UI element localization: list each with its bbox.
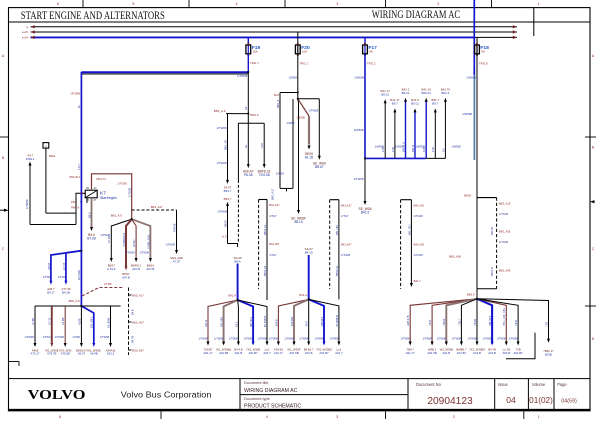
svg-text:1/TG08: 1/TG08 bbox=[414, 214, 424, 218]
fan branch 4 gray bbox=[132, 219, 151, 258]
svg-text:P5A: P5A bbox=[71, 200, 76, 204]
svg-text:A01.B: A01.B bbox=[502, 351, 510, 355]
svg-text:A0.1: A0.1 bbox=[234, 321, 238, 327]
svg-text:B05.01: B05.01 bbox=[422, 91, 432, 95]
svg-text:A01.B7: A01.B7 bbox=[319, 351, 329, 355]
svg-text:TRG.Y: TRG.Y bbox=[250, 61, 259, 65]
svg-text:A09.5B1: A09.5B1 bbox=[290, 316, 294, 327]
wire bus to F20 bbox=[297, 32, 299, 45]
svg-text:1/TW08: 1/TW08 bbox=[229, 337, 239, 341]
svg-text:4: 4 bbox=[235, 2, 237, 6]
svg-text:B4.7B: B4.7B bbox=[131, 336, 135, 343]
svg-text:3: 3 bbox=[336, 415, 338, 419]
tree4 right extension wire bbox=[477, 299, 549, 340]
title block outline bbox=[9, 379, 591, 410]
frame zone ticks left bbox=[0, 136, 9, 138]
svg-text:1/TW08: 1/TW08 bbox=[483, 337, 493, 341]
svg-text:B+5: B+5 bbox=[274, 93, 280, 97]
svg-text:1/W08: 1/W08 bbox=[286, 121, 295, 125]
svg-text:A07.B: A07.B bbox=[122, 275, 130, 279]
svg-text:1/TW0: 1/TW0 bbox=[43, 335, 51, 339]
wire F18 down to tree4 hub bbox=[476, 54, 478, 299]
title block divider doc cell bbox=[239, 379, 241, 410]
svg-text:A1.35: A1.35 bbox=[305, 155, 314, 159]
svg-text:B41.7B1: B41.7B1 bbox=[335, 224, 339, 235]
svg-text:B6S9: B6S9 bbox=[223, 220, 227, 227]
svg-text:B54.7: B54.7 bbox=[224, 189, 232, 193]
svg-text:04: 04 bbox=[506, 395, 516, 405]
svg-text:1/TW08: 1/TW08 bbox=[468, 337, 478, 341]
svg-text:B6S.9: B6S.9 bbox=[250, 113, 258, 117]
svg-text:B15_B8.1: B15_B8.1 bbox=[90, 316, 94, 328]
svg-text:A01.5B: A01.5B bbox=[427, 351, 436, 355]
svg-text:A09.B: A09.B bbox=[274, 319, 278, 326]
svg-text:A01.B7: A01.B7 bbox=[513, 351, 523, 355]
svg-text:A7.B5: A7.B5 bbox=[31, 317, 35, 325]
power bus +15 line 2 bbox=[31, 31, 518, 33]
rail connector tree4 bbox=[477, 197, 497, 199]
tree1 branch 3 maroon bbox=[64, 306, 66, 344]
svg-text:1/W508: 1/W508 bbox=[375, 145, 385, 149]
svg-text:1/TW08: 1/TW08 bbox=[437, 337, 447, 341]
power bus +30 line 1 bbox=[31, 26, 518, 28]
svg-text:A61.5: A61.5 bbox=[294, 220, 303, 224]
svg-text:1XX: 1XX bbox=[260, 143, 264, 148]
svg-text:A01.B: A01.B bbox=[305, 351, 313, 355]
svg-text:A01.5B: A01.5B bbox=[219, 351, 228, 355]
svg-text:1/TW0: 1/TW0 bbox=[43, 275, 51, 279]
svg-text:1/TW7: 1/TW7 bbox=[132, 239, 136, 247]
header bar under F19 bbox=[238, 122, 264, 124]
svg-text:5: 5 bbox=[132, 2, 134, 6]
svg-text:1/TW08: 1/TW08 bbox=[101, 233, 111, 237]
svg-text:1/TW08: 1/TW08 bbox=[139, 251, 149, 255]
junction dots bbox=[247, 71, 249, 73]
svg-text:04(59): 04(59) bbox=[561, 399, 577, 405]
svg-text:B6S_A17: B6S_A17 bbox=[132, 293, 144, 297]
wire G1 down bbox=[45, 148, 47, 213]
svg-text:7B.B: 7B.B bbox=[514, 320, 518, 326]
tree4 splice fan bbox=[410, 299, 477, 344]
svg-text:B41.7B.1: B41.7B.1 bbox=[407, 224, 411, 235]
wire F19 to node J1 bbox=[247, 54, 249, 72]
svg-text:A01.B7: A01.B7 bbox=[248, 351, 258, 355]
svg-text:1/TG08: 1/TG08 bbox=[117, 181, 127, 185]
riser 2 with up-arrow bbox=[394, 112, 396, 159]
maroon dashed link tree1 bbox=[82, 288, 124, 297]
svg-text:B6S_A05: B6S_A05 bbox=[499, 230, 511, 234]
node F20 tee left bbox=[280, 92, 298, 94]
svg-text:7B.1_CM_7.B1: 7B.1_CM_7.B1 bbox=[502, 308, 506, 326]
svg-text:A75.17: A75.17 bbox=[31, 352, 40, 356]
svg-text:WIRING DIAGRAM AC: WIRING DIAGRAM AC bbox=[372, 9, 460, 21]
svg-text:Document No: Document No bbox=[416, 382, 442, 387]
svg-text:1/W508: 1/W508 bbox=[354, 75, 364, 79]
svg-text:1/W08: 1/W08 bbox=[276, 172, 285, 176]
svg-text:6: 6 bbox=[57, 2, 59, 6]
rail connector tree2 bbox=[259, 199, 267, 201]
svg-text:1/TW08: 1/TW08 bbox=[509, 337, 519, 341]
svg-text:1/W508: 1/W508 bbox=[416, 145, 426, 149]
maroon wire K7 coil feed bbox=[92, 174, 132, 219]
tree2 splice fan bbox=[208, 300, 238, 344]
svg-text:1/TW08: 1/TW08 bbox=[199, 337, 209, 341]
svg-text:1/TW08: 1/TW08 bbox=[217, 126, 227, 130]
svg-text:B6S_A.9: B6S_A.9 bbox=[111, 214, 123, 218]
svg-text:B6S9: B6S9 bbox=[464, 193, 471, 197]
tree1 branch 4 bbox=[80, 306, 82, 344]
svg-text:B6S_A9: B6S_A9 bbox=[223, 140, 227, 150]
svg-text:B7.B1B.B: B7.B1B.B bbox=[263, 315, 267, 327]
svg-text:A01.17: A01.17 bbox=[406, 351, 415, 355]
svg-text:B6S_A.9: B6S_A.9 bbox=[214, 109, 226, 113]
wire column A17 with arrow bbox=[176, 210, 178, 251]
header strip divider line bbox=[9, 21, 591, 23]
svg-text:B6S1.B: B6S1.B bbox=[490, 267, 494, 276]
blue riser wire through cluster bbox=[80, 72, 82, 247]
manifold bar blue bbox=[365, 157, 426, 159]
svg-text:B6S_A17: B6S_A17 bbox=[271, 188, 275, 200]
svg-text:B9.01: B9.01 bbox=[381, 92, 389, 96]
manifold bar black bbox=[426, 157, 446, 159]
svg-text:B7.08: B7.08 bbox=[87, 237, 96, 241]
svg-text:B6S_A17: B6S_A17 bbox=[151, 205, 163, 209]
svg-text:2: 2 bbox=[453, 415, 455, 419]
svg-text:1/TG7: 1/TG7 bbox=[269, 253, 277, 257]
svg-text:PRODUCT SCHEMATIC: PRODUCT SCHEMATIC bbox=[244, 403, 301, 409]
off-page arrow up S4 bbox=[29, 162, 32, 166]
blue feeder wire from top edge bbox=[473, 0, 475, 75]
fan branch 3 bbox=[132, 219, 136, 258]
svg-text:A.5: A.5 bbox=[222, 235, 227, 239]
svg-text:1/TW08: 1/TW08 bbox=[217, 210, 227, 214]
svg-text:3A: 3A bbox=[244, 144, 248, 148]
svg-text:A5.07: A5.07 bbox=[78, 352, 86, 356]
svg-text:Volvo Bus Corporation: Volvo Bus Corporation bbox=[121, 390, 212, 399]
svg-text:B6S_A97: B6S_A97 bbox=[132, 348, 144, 352]
frame bottom thick edge bbox=[8, 409, 591, 411]
wire to SE arrow bbox=[297, 99, 300, 211]
svg-text:F.0: F.0 bbox=[441, 148, 445, 152]
svg-text:7AMB40101: 7AMB40101 bbox=[122, 232, 126, 247]
wire right leg with arrow bbox=[318, 99, 320, 157]
svg-text:10A: 10A bbox=[302, 50, 307, 54]
rail connector right bbox=[401, 199, 412, 201]
riser 7 with up-arrow bbox=[444, 101, 446, 158]
wire F17 down blue bbox=[364, 54, 366, 158]
svg-text:B7.B9B.B: B7.B9B.B bbox=[335, 315, 339, 327]
wire column B54 down-arrow bbox=[227, 114, 229, 181]
wire jog to tree2 feed bbox=[228, 244, 238, 248]
svg-text:PRA.73: PRA.73 bbox=[97, 177, 107, 181]
svg-text:A7.57: A7.57 bbox=[173, 259, 181, 263]
svg-text:A01.B7: A01.B7 bbox=[457, 351, 467, 355]
svg-text:A75.7B: A75.7B bbox=[47, 352, 56, 356]
svg-text:B41.B1: B41.B1 bbox=[490, 226, 494, 235]
fan branch 1 bbox=[111, 219, 131, 258]
node F20 tee right bbox=[298, 98, 320, 100]
svg-text:1/TW08: 1/TW08 bbox=[401, 337, 411, 341]
fuse F20 bbox=[297, 45, 299, 55]
svg-text:10A: 10A bbox=[253, 50, 258, 54]
svg-text:TRG.2: TRG.2 bbox=[367, 62, 376, 66]
svg-text:A07.B: A07.B bbox=[146, 267, 154, 271]
tree1 branch 2 maroon bbox=[51, 306, 53, 344]
wire header leg right with arrow bbox=[263, 123, 265, 165]
tree1 branch 5 blue bbox=[81, 306, 93, 344]
svg-text:P5.: P5. bbox=[80, 192, 84, 196]
svg-text:P8A..9: P8A..9 bbox=[71, 206, 80, 210]
riser 6 with up-arrow bbox=[434, 112, 436, 159]
svg-text:B6S1.A5: B6S1.A5 bbox=[263, 265, 267, 276]
svg-text:1/TW08: 1/TW08 bbox=[452, 337, 462, 341]
svg-text:B5.01: B5.01 bbox=[402, 91, 410, 95]
svg-text:B5.01: B5.01 bbox=[411, 102, 419, 106]
wire header leg middle with arrow bbox=[247, 123, 249, 165]
svg-text:1/W508: 1/W508 bbox=[452, 145, 462, 149]
svg-text:TRG.8: TRG.8 bbox=[479, 62, 488, 66]
svg-text:1/TW08: 1/TW08 bbox=[258, 337, 268, 341]
svg-text:B4.1B: B4.1B bbox=[62, 291, 70, 295]
svg-text:B41.A17: B41.A17 bbox=[341, 204, 352, 208]
svg-text:A15B: A15B bbox=[77, 318, 81, 325]
wire column B54 up-arrow segment bbox=[226, 202, 229, 206]
fan branch 2 maroon trunk bbox=[126, 219, 132, 267]
blue wire J1 to K7 riser bbox=[81, 71, 248, 73]
stub K7 pin85 bbox=[86, 198, 88, 203]
frame zone ticks top bbox=[82, 0, 84, 8]
svg-text:B54.7: B54.7 bbox=[224, 197, 232, 201]
svg-text:5A: 5A bbox=[481, 50, 485, 54]
svg-text:1/TW08: 1/TW08 bbox=[100, 335, 110, 339]
svg-text:6: 6 bbox=[59, 415, 61, 419]
off-page arrow left border bbox=[4, 209, 9, 212]
svg-text:B41.A07: B41.A07 bbox=[269, 242, 280, 246]
svg-text:A01.17: A01.17 bbox=[274, 351, 283, 355]
svg-text:Document type: Document type bbox=[244, 397, 270, 401]
tree1 hub bar bbox=[35, 305, 121, 307]
svg-text:CP15W: CP15W bbox=[70, 92, 80, 96]
svg-text:Issue: Issue bbox=[498, 382, 508, 387]
svg-text:B41.A17: B41.A17 bbox=[269, 203, 280, 207]
svg-text:B01B: B01B bbox=[545, 352, 552, 356]
svg-text:A77.B: A77.B bbox=[48, 318, 52, 325]
svg-text:A01.B: A01.B bbox=[235, 351, 243, 355]
svg-text:A0.9: A0.9 bbox=[305, 321, 309, 327]
connection point symbol G1 bbox=[43, 143, 49, 149]
svg-text:1/TG08: 1/TG08 bbox=[499, 240, 509, 244]
svg-text:01(02): 01(02) bbox=[529, 396, 553, 405]
svg-text:B41.5: B41.5 bbox=[361, 210, 370, 214]
svg-text:Page: Page bbox=[557, 382, 567, 387]
svg-text:A7MB_A101: A7MB_A101 bbox=[146, 234, 150, 249]
rail connector mid bbox=[330, 199, 339, 201]
wire F20 down bbox=[297, 54, 299, 99]
svg-text:Volume: Volume bbox=[532, 382, 546, 387]
svg-text:1/TW08: 1/TW08 bbox=[217, 161, 227, 165]
wire S4 horizontal bbox=[30, 224, 76, 226]
svg-text:A01.B: A01.B bbox=[473, 351, 481, 355]
svg-text:1/W508: 1/W508 bbox=[395, 145, 405, 149]
wire stub top right bbox=[533, 8, 535, 36]
tree2 blue feed wire bbox=[237, 264, 239, 301]
off-page arrow right border bbox=[590, 200, 595, 203]
svg-text:7B.B: 7B.B bbox=[428, 320, 432, 326]
svg-text:1/TW08: 1/TW08 bbox=[285, 337, 295, 341]
wire J2 to header bar bbox=[247, 114, 249, 124]
svg-text:B6.07: B6.07 bbox=[315, 165, 324, 169]
svg-text:B6S.9: B6S.9 bbox=[467, 292, 475, 296]
svg-text:1/TW08: 1/TW08 bbox=[55, 335, 65, 339]
frame zone ticks right bbox=[585, 136, 596, 138]
svg-text:MB.7B.5: MB.7B.5 bbox=[488, 315, 492, 326]
svg-text:START ENGINE AND ALTERNATORS: START ENGINE AND ALTERNATORS bbox=[21, 10, 165, 22]
tree1 branch 1 bbox=[34, 306, 36, 344]
svg-text:A7.B8: A7.B8 bbox=[104, 282, 112, 286]
svg-text:a+24: a+24 bbox=[22, 36, 29, 40]
wire to relay pins bbox=[76, 193, 85, 224]
fuse F17 bbox=[364, 45, 366, 55]
node J2 tee bbox=[226, 113, 248, 115]
svg-text:5A: 5A bbox=[369, 50, 373, 54]
svg-text:B9.7: B9.7 bbox=[392, 102, 398, 106]
svg-text:B4.B: B4.B bbox=[131, 309, 135, 315]
wire below manifold to SE arrow bbox=[364, 158, 366, 201]
wire header leg left dashed bbox=[237, 123, 239, 180]
svg-text:A01.7: A01.7 bbox=[263, 351, 271, 355]
svg-text:7.B1: 7.B1 bbox=[544, 321, 548, 327]
tree1 branch 6 bbox=[110, 306, 112, 344]
svg-text:7B9.B: 7B9.B bbox=[442, 318, 446, 325]
svg-text:A77.B: A77.B bbox=[62, 263, 66, 270]
svg-text:TRG.1: TRG.1 bbox=[300, 62, 309, 66]
svg-text:Startregim: Startregim bbox=[100, 196, 117, 200]
steel blue wire segment along F18 drop bbox=[473, 75, 475, 160]
svg-text:A5_B5W: A5_B5W bbox=[106, 317, 110, 328]
svg-text:1/TW08: 1/TW08 bbox=[299, 337, 309, 341]
svg-text:Document title: Document title bbox=[244, 381, 268, 385]
svg-text:1/TG08: 1/TG08 bbox=[128, 187, 132, 197]
svg-text:WIRING DIAGRAM AC: WIRING DIAGRAM AC bbox=[244, 388, 298, 394]
svg-text:1/TW08: 1/TW08 bbox=[308, 109, 318, 113]
fuse F18 bbox=[476, 45, 478, 55]
svg-text:1/TW08: 1/TW08 bbox=[25, 335, 35, 339]
svg-text:B41.A05: B41.A05 bbox=[414, 243, 425, 247]
svg-text:A01.5B1: A01.5B1 bbox=[220, 316, 224, 327]
svg-text:1/W508: 1/W508 bbox=[354, 128, 364, 132]
dashed link to column A17 bbox=[132, 209, 177, 211]
svg-text:B0%: B0% bbox=[234, 260, 241, 264]
svg-text:1/TG7: 1/TG7 bbox=[341, 214, 349, 218]
svg-text:B4.15: B4.15 bbox=[305, 251, 313, 255]
svg-text:20904123: 20904123 bbox=[427, 396, 473, 407]
svg-text:B41.A: B41.A bbox=[228, 294, 236, 298]
svg-text:A01.B: A01.B bbox=[442, 351, 450, 355]
svg-text:A.51.5: A.51.5 bbox=[107, 267, 116, 271]
svg-text:1/TW08: 1/TW08 bbox=[214, 337, 224, 341]
power bus +24V blue line 3 bbox=[31, 36, 475, 38]
svg-text:A25.B: A25.B bbox=[47, 263, 51, 270]
tree3 splice fan bbox=[278, 299, 308, 343]
svg-text:4: 4 bbox=[266, 415, 268, 419]
svg-text:1/W08: 1/W08 bbox=[289, 75, 298, 79]
svg-text:1/TW08: 1/TW08 bbox=[315, 337, 325, 341]
svg-text:B6S_A45: B6S_A45 bbox=[499, 269, 511, 273]
svg-text:1/TG08: 1/TG08 bbox=[499, 212, 509, 216]
svg-text:3: 3 bbox=[336, 2, 338, 6]
svg-text:PRA.9L7: PRA.9L7 bbox=[69, 175, 80, 179]
svg-text:A1.BB: A1.BB bbox=[61, 317, 65, 325]
svg-text:B91.5: B91.5 bbox=[442, 91, 450, 95]
svg-text:1/TW0: 1/TW0 bbox=[58, 275, 66, 279]
svg-text:B41.A07: B41.A07 bbox=[341, 243, 352, 247]
svg-text:B6S_A15: B6S_A15 bbox=[499, 202, 511, 206]
svg-text:A01.B: A01.B bbox=[204, 320, 208, 327]
riser 1 with up-arrow bbox=[384, 103, 386, 159]
svg-text:1/TG7: 1/TG7 bbox=[269, 214, 277, 218]
bracket under tree4 bbox=[506, 333, 535, 359]
blue trunk wire to tree1 hub bbox=[80, 247, 82, 306]
bracket rail tree1 bbox=[128, 288, 130, 356]
svg-text:A5.12: A5.12 bbox=[107, 352, 115, 356]
svg-text:B6S_A08: B6S_A08 bbox=[449, 255, 461, 259]
svg-text:1/TW08: 1/TW08 bbox=[329, 337, 339, 341]
blue wire fork to A25 arrows bbox=[51, 251, 82, 282]
svg-text:B9.7: B9.7 bbox=[432, 102, 438, 106]
svg-text:1/TG08: 1/TG08 bbox=[341, 253, 351, 257]
svg-text:B6S_A.5: B6S_A.5 bbox=[69, 299, 81, 303]
svg-text:A01.B: A01.B bbox=[488, 351, 496, 355]
svg-text:B6S_A07: B6S_A07 bbox=[132, 320, 144, 324]
svg-text:1/TW08: 1/TW08 bbox=[244, 337, 254, 341]
wire bus to F19 bbox=[247, 37, 249, 45]
riser 4 blue with up-arrow bbox=[414, 112, 416, 159]
wire J1 down bbox=[247, 72, 249, 114]
svg-text:7XG.08: 7XG.08 bbox=[259, 173, 270, 177]
wire K7 output with arrow bbox=[91, 198, 93, 228]
svg-text:A07.B: A07.B bbox=[132, 267, 140, 271]
svg-text:B41.A15: B41.A15 bbox=[414, 204, 425, 208]
svg-text:VOLVO: VOLVO bbox=[28, 387, 86, 402]
wire bus to F18 bbox=[476, 37, 478, 45]
svg-text:1/TW08: 1/TW08 bbox=[25, 199, 29, 209]
wire bus to F17 bbox=[364, 37, 366, 45]
svg-text:F.09: F.09 bbox=[431, 147, 435, 152]
svg-text:A75.5B: A75.5B bbox=[61, 352, 70, 356]
svg-text:B6S1.A1: B6S1.A1 bbox=[263, 224, 267, 235]
riser 5 blue with up-arrow bbox=[425, 101, 427, 158]
svg-text:1/5000: 1/5000 bbox=[296, 116, 305, 120]
relay K7 bbox=[85, 190, 97, 198]
svg-text:A01.5B: A01.5B bbox=[289, 351, 298, 355]
svg-text:B41.B: B41.B bbox=[411, 145, 415, 152]
svg-text:4/9W.2: 4/9W.2 bbox=[26, 157, 35, 161]
svg-text:MB.7B.1: MB.7B.1 bbox=[249, 316, 253, 327]
svg-text:1/TW08: 1/TW08 bbox=[269, 337, 279, 341]
fuse F19 bbox=[247, 45, 249, 55]
svg-text:B5.0: B5.0 bbox=[87, 212, 91, 218]
tree3 blue feed wire bbox=[308, 255, 310, 299]
svg-text:A5.4B: A5.4B bbox=[90, 352, 98, 356]
svg-text:1: 1 bbox=[538, 415, 540, 419]
svg-text:B41.7: B41.7 bbox=[414, 279, 422, 283]
gray conductor to SE09 bbox=[308, 116, 310, 145]
svg-text:1/W508: 1/W508 bbox=[466, 75, 476, 79]
svg-text:1/W508: 1/W508 bbox=[462, 112, 472, 116]
svg-text:4TB.08: 4TB.08 bbox=[172, 223, 176, 232]
svg-text:1/TW08: 1/TW08 bbox=[237, 74, 248, 78]
svg-text:B+: B+ bbox=[77, 104, 81, 108]
